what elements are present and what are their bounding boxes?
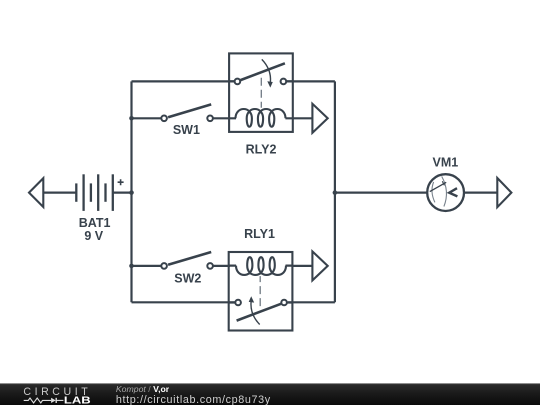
svg-text:RLY1: RLY1: [244, 227, 275, 241]
wire: voltmeter to output port: [464, 192, 497, 194]
footer bar: [0, 383, 540, 405]
junction: bus / SW1: [129, 116, 134, 121]
wire: bus to SW1: [132, 117, 162, 119]
svg-text:9 V: 9 V: [84, 229, 103, 243]
relay switch wire stubs: [229, 80, 293, 82]
wire: bus to SW2: [132, 265, 162, 267]
junction: bus / battery: [129, 190, 134, 195]
meter scale arcs: [432, 182, 435, 202]
wire: RLY2 switch to right bus: [286, 80, 335, 82]
svg-text:VM1: VM1: [433, 156, 459, 170]
port flag: voltmeter output (right triangle): [497, 178, 511, 207]
relay body box: [229, 53, 293, 131]
CircuitLab logo: resistor zigzag: [24, 398, 51, 403]
relay RLY1 (RLY2 rotated 180°): [229, 252, 293, 331]
meter needle tick: [442, 181, 444, 185]
meter needle: [430, 182, 446, 191]
meter less-than mark: [449, 188, 457, 196]
svg-text:BAT1: BAT1: [79, 216, 111, 230]
wire: battery negative lead: [43, 192, 76, 194]
svg-text:http://circuitlab.com/cp8u73y: http://circuitlab.com/cp8u73y: [116, 394, 271, 405]
battery plus sign: [118, 179, 124, 185]
CircuitLab logo: diode: [51, 398, 56, 403]
battery BAT1: [76, 174, 113, 211]
wire: right bus to voltmeter: [335, 192, 427, 194]
wire: left vertical bus: [130, 81, 132, 302]
wire: top horizontal to RLY2 switch: [132, 80, 235, 82]
relay switch contacts: [235, 79, 241, 85]
junction: bus / SW2: [129, 264, 134, 269]
svg-text:SW1: SW1: [173, 123, 200, 137]
voltmeter VM1: [427, 174, 464, 211]
wire: battery positive to left bus: [113, 192, 132, 194]
wire: RLY2 coil to port: [292, 117, 312, 119]
relay actuation arrow: [262, 59, 271, 82]
junction: right bus / voltmeter: [333, 190, 338, 195]
svg-text:RLY2: RLY2: [246, 143, 277, 157]
relay coil: [236, 109, 286, 127]
relay coil stubs: [229, 117, 293, 119]
wire: RLY1 switch to right bus: [288, 301, 335, 303]
port flag: RLY1 coil return (right triangle): [312, 251, 327, 280]
wire: right vertical bus: [334, 81, 336, 302]
wire: bottom horizontal to RLY1 switch: [132, 301, 236, 303]
svg-text:Kompot / V,or: Kompot / V,or: [116, 384, 170, 394]
wire: SW2 to RLY1 coil: [213, 265, 230, 267]
svg-text:LAB: LAB: [64, 395, 91, 405]
relay actuation dashed line: [260, 78, 262, 108]
relay switch lever: [241, 63, 285, 80]
switch SW1: [161, 104, 213, 121]
port flag: battery negative (left triangle): [29, 178, 43, 207]
switch SW2: [161, 252, 213, 269]
wire: SW1 to RLY2 coil: [213, 117, 230, 119]
relay RLY2: [229, 53, 293, 131]
svg-text:SW2: SW2: [174, 271, 201, 285]
wire: RLY1 coil to port: [292, 265, 312, 267]
port flag: RLY2 coil return (right triangle): [312, 104, 327, 133]
